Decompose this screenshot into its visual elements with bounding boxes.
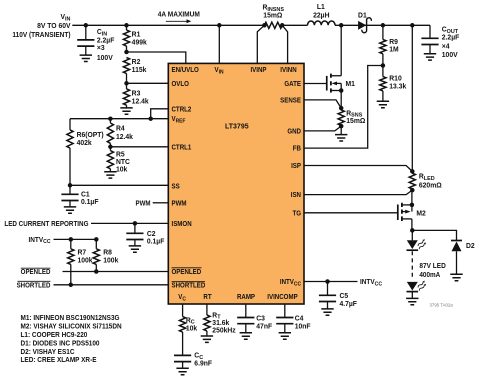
svg-text:OPENLED: OPENLED [21, 269, 51, 276]
svg-text:10k: 10k [186, 325, 197, 332]
inductor L1 [308, 4, 336, 26]
svg-text:OVLO: OVLO [172, 80, 189, 87]
wire SHORTLED [54, 284, 169, 286]
pin label PWM [172, 200, 188, 207]
node ISMON-C2 junction [133, 221, 138, 226]
wire PWM [153, 202, 169, 204]
node CTRL2-VREF junction [148, 116, 153, 121]
svg-text:LED: CREE XLAMP XR-E: LED: CREE XLAMP XR-E [20, 357, 97, 364]
svg-text:D1: D1 [358, 12, 367, 19]
svg-text:15mΩ: 15mΩ [346, 118, 365, 125]
wire ISP [304, 166, 412, 172]
node M2 source-body tie [410, 203, 415, 208]
ground below C1 [64, 207, 76, 213]
svg-text:NTC: NTC [116, 159, 130, 166]
capacitor C5 [319, 282, 357, 309]
label INTVCC right [360, 279, 382, 288]
node INTVCC-R8 [94, 237, 99, 242]
svg-text:M1: INFINEON BSC190N12NS3G: M1: INFINEON BSC190N12NS3G [20, 315, 119, 322]
pin label FB [293, 145, 301, 152]
svg-text:GND: GND [287, 128, 301, 135]
svg-text:TG: TG [292, 210, 301, 217]
IC U1 LT3795 body [168, 63, 304, 304]
pin label GATE [284, 81, 301, 88]
pin label VREF [172, 116, 187, 125]
ground below C2 [129, 246, 141, 252]
svg-text:4A MAXIMUM: 4A MAXIMUM [158, 11, 200, 18]
capacitor CC [174, 353, 212, 369]
node SENSE-RSNS junction [339, 106, 344, 111]
svg-text:L1: COOPER HC9-220: L1: COOPER HC9-220 [20, 332, 87, 339]
ground below RT [201, 336, 213, 342]
node RSNS bottom / GND tap [339, 124, 344, 129]
pin label INTVCC (right) [280, 279, 301, 288]
svg-text:SS: SS [172, 183, 181, 190]
svg-text:R8: R8 [103, 249, 112, 256]
node rail-R1 junction [124, 23, 129, 28]
label RINSNS value [263, 5, 285, 20]
svg-text:ISN: ISN [291, 192, 301, 199]
svg-text:ISP: ISP [291, 163, 301, 170]
capacitor C2 [126, 223, 164, 246]
capacitor C4 (IVINCOMP) [276, 304, 310, 333]
svg-text:C4: C4 [295, 315, 304, 322]
label PWM external [135, 200, 151, 207]
wire M1 source to RSNS [340, 91, 342, 109]
pin label VC (bottom) [178, 294, 186, 303]
svg-text:12.4k: 12.4k [116, 134, 133, 141]
node OPENLED-R8 junction [94, 269, 99, 274]
figure tag 3795 TA02a [429, 302, 453, 307]
wire VOUT to RLED [411, 25, 413, 171]
svg-text:0.1µF: 0.1µF [147, 239, 164, 246]
svg-text:PWM: PWM [172, 200, 188, 207]
svg-text:C5: C5 [340, 293, 349, 300]
pin label TG [292, 210, 301, 217]
svg-text:R2: R2 [132, 59, 141, 66]
svg-text:115k: 115k [132, 67, 147, 74]
svg-text:47nF: 47nF [256, 324, 272, 331]
svg-text:R4: R4 [116, 126, 125, 133]
svg-text:100V: 100V [442, 52, 458, 59]
svg-text:2.2µF: 2.2µF [442, 35, 459, 42]
pin label RAMP [237, 294, 256, 301]
pin label IVINP [250, 67, 267, 74]
svg-text:10k: 10k [116, 166, 127, 173]
ground below C5 [321, 309, 333, 315]
diode D1 (schottky) [358, 12, 371, 33]
svg-text:D2: VISHAY ES1C: D2: VISHAY ES1C [20, 349, 74, 356]
ground below C3 [240, 333, 252, 339]
ground below COUT [424, 54, 436, 60]
capacitor C1 [61, 185, 98, 207]
svg-text:R1: R1 [132, 31, 141, 38]
svg-text:C1: C1 [81, 191, 90, 198]
node RLED top [410, 169, 415, 174]
wire INTVCC right [304, 281, 358, 283]
node INTVCC-R7 [69, 237, 74, 242]
svg-text:R7: R7 [78, 249, 87, 256]
capacitor C3 (RAMP) [237, 304, 272, 333]
svg-text:LED CURRENT REPORTING: LED CURRENT REPORTING [4, 221, 88, 228]
wire ISN [304, 190, 412, 195]
resistor RLED [409, 173, 442, 189]
svg-text:15mΩ: 15mΩ [263, 12, 282, 19]
diode D2 [451, 241, 475, 275]
svg-text:3795 TA02a: 3795 TA02a [429, 302, 453, 307]
resistor RINSNS (input sense) [264, 22, 282, 28]
wire ISMON [91, 222, 168, 224]
resistor R8 [93, 239, 118, 271]
pin label ISMON [172, 220, 192, 227]
resistor R3 [123, 83, 148, 108]
label VIN source [12, 14, 71, 39]
pin label EN/UVLO [172, 67, 199, 74]
svg-text:2.2µF: 2.2µF [97, 37, 114, 44]
label COUT value [442, 27, 459, 60]
svg-text:R5: R5 [116, 152, 125, 159]
svg-text:SHORTLED: SHORTLED [172, 282, 206, 289]
resistor R4 [107, 119, 133, 147]
resistor R2 [123, 58, 146, 84]
node SW (L1-D1-M1 junction) [339, 23, 344, 28]
svg-text:C2: C2 [147, 231, 156, 238]
node VREF-R4 junction [108, 116, 113, 121]
ground below D2 [450, 274, 462, 280]
svg-text:SENSE: SENSE [280, 97, 301, 104]
pin label OPENLED (with overline) [172, 268, 202, 276]
svg-text:×3: ×3 [97, 45, 105, 52]
node R1-R2 junction / EN-UVLO tap [124, 50, 129, 55]
notes component list [20, 315, 121, 365]
pin label RT (bottom) [203, 294, 211, 301]
pin label OVLO [172, 80, 189, 87]
capacitor CIN [77, 25, 94, 55]
svg-text:C3: C3 [256, 315, 265, 322]
svg-text:87V LED: 87V LED [419, 263, 445, 270]
wire CTRL2 link [151, 109, 169, 119]
svg-text:×4: ×4 [442, 43, 450, 50]
ground below CC [176, 368, 188, 374]
svg-text:100k: 100k [103, 258, 118, 265]
wire EN/UVLO [127, 52, 186, 63]
label 4A MAXIMUM with arrow [158, 11, 200, 23]
wire to D2 [412, 230, 456, 240]
svg-text:8V TO 60V: 8V TO 60V [37, 23, 71, 30]
node R2-R3 junction / OVLO tap [124, 81, 129, 86]
wire CTRL1 [110, 146, 168, 148]
node VIN-CIN junction [84, 23, 89, 28]
label INTVCC left [29, 237, 51, 246]
wire SENSE [304, 100, 341, 108]
svg-text:IVINCOMP: IVINCOMP [267, 294, 298, 301]
node rail-VOUT junction (RLED branch) [410, 23, 415, 28]
wire GND pin [304, 126, 341, 131]
svg-text:OPENLED: OPENLED [172, 268, 202, 275]
ground below R3 [120, 108, 132, 114]
svg-text:RAMP: RAMP [237, 294, 256, 301]
svg-text:620mΩ: 620mΩ [419, 182, 442, 189]
svg-text:R6(OPT): R6(OPT) [77, 132, 104, 139]
svg-text:250kHz: 250kHz [212, 327, 236, 334]
node RLED bottom [410, 188, 415, 193]
wire IVINP lead [257, 25, 264, 63]
wire SS net [70, 184, 168, 186]
wire INTVCC left net [54, 238, 97, 240]
svg-text:D2: D2 [466, 243, 475, 250]
LED D-LED2 (bottom of string) [407, 280, 427, 292]
pin label ISP [291, 163, 301, 170]
LED D-LED1 (top of string) [407, 230, 427, 250]
svg-text:SHORTLED: SHORTLED [17, 282, 51, 289]
resistor R1 [123, 25, 147, 52]
label 87V LED 400mA [419, 263, 445, 280]
svg-text:M2: VISHAY SILICONIX Si7115DN: M2: VISHAY SILICONIX Si7115DN [20, 323, 121, 330]
node SHORTLED-R7 junction [69, 283, 74, 288]
ground below CIN [80, 55, 92, 61]
svg-text:GATE: GATE [284, 81, 301, 88]
resistor R9 [380, 25, 399, 65]
node rail-R9 junction [381, 23, 386, 28]
svg-text:ISMON: ISMON [172, 220, 192, 227]
svg-text:PWM: PWM [135, 200, 151, 207]
resistor R5 (NTC) [107, 147, 130, 174]
svg-text:M1: M1 [346, 81, 356, 88]
resistor R10 [380, 66, 407, 102]
pin label IVINCOMP [267, 294, 298, 301]
ground below RSNS [335, 126, 347, 141]
transistor M1 (NMOS) [327, 25, 355, 92]
pin label SS [172, 183, 181, 190]
resistor R6 (OPT) [67, 119, 104, 186]
resistor RC (compensation) [180, 304, 198, 355]
node SS-C1 junction [68, 183, 73, 188]
wire OVLO [127, 82, 169, 84]
svg-text:110V (TRANSIENT): 110V (TRANSIENT) [12, 32, 70, 39]
svg-text:R3: R3 [132, 90, 141, 97]
svg-text:400mA: 400mA [419, 272, 440, 279]
node RINSNS left [262, 23, 267, 28]
ground below R5 [104, 172, 116, 178]
node M1 source [339, 88, 344, 93]
node INTVCC-C5 junction [325, 279, 330, 284]
label LED CURRENT REPORTING [4, 221, 88, 228]
wire FB link [304, 66, 383, 149]
svg-text:100V: 100V [97, 55, 113, 62]
node R4-R5 junction / CTRL1 tap [108, 145, 113, 150]
node R9-R10 junction / FB tap [381, 63, 386, 68]
pin label CTRL1 [172, 144, 192, 151]
transistor M2 (PMOS) [398, 190, 426, 230]
svg-text:D1: DIODES INC PDS5100: D1: DIODES INC PDS5100 [20, 340, 99, 347]
wire dashed LED string [411, 251, 413, 278]
svg-text:402k: 402k [77, 140, 92, 147]
svg-text:12.4k: 12.4k [132, 98, 149, 105]
svg-text:13.3k: 13.3k [389, 83, 406, 90]
wire GATE [304, 83, 327, 85]
node RINSNS right [280, 23, 285, 28]
label OPENLED external (with overline) [21, 268, 51, 276]
node LED anode junction [410, 228, 415, 233]
svg-text:10nF: 10nF [295, 324, 311, 331]
svg-text:31.6k: 31.6k [212, 320, 229, 327]
resistor RT (frequency set) [204, 304, 236, 336]
svg-text:RT: RT [203, 294, 211, 301]
label CIN value [97, 29, 114, 62]
pin label SHORTLED (with overline) [172, 282, 206, 290]
svg-text:0.1µF: 0.1µF [81, 199, 98, 206]
svg-text:L1: L1 [317, 4, 325, 11]
label SHORTLED external (with overline) [17, 281, 51, 289]
pin label IVINN [280, 67, 297, 74]
wire OPENLED [63, 271, 169, 273]
svg-text:100k: 100k [78, 258, 93, 265]
pin label GND [287, 128, 301, 135]
wire VIN pin lead [217, 23, 222, 63]
resistor R7 [68, 239, 93, 284]
svg-text:6.9nF: 6.9nF [194, 361, 212, 368]
svg-text:R10: R10 [389, 76, 402, 83]
ground below R10 [377, 101, 389, 107]
pin label VIN (top) [215, 67, 224, 76]
pin label SENSE [280, 97, 301, 104]
wire VREF net [70, 118, 168, 120]
ground below LED string [406, 292, 418, 305]
svg-text:M2: M2 [416, 210, 426, 217]
capacitor COUT [421, 25, 438, 53]
svg-text:499k: 499k [132, 39, 147, 46]
IC label LT3795 [225, 124, 249, 131]
svg-text:1M: 1M [389, 47, 399, 54]
wire TG [304, 212, 398, 214]
ground below C4 [279, 333, 291, 339]
pin label ISN [291, 192, 301, 199]
pin label CTRL2 [172, 106, 192, 113]
svg-text:FB: FB [293, 145, 301, 152]
svg-text:CTRL1: CTRL1 [172, 144, 192, 151]
wire IVINN lead [282, 25, 287, 63]
svg-text:IVINN: IVINN [280, 67, 297, 74]
svg-text:R9: R9 [389, 39, 398, 46]
svg-text:IVINP: IVINP [250, 67, 267, 74]
svg-text:22µH: 22µH [313, 12, 329, 19]
resistor RSNS [338, 110, 366, 125]
svg-text:4.7µF: 4.7µF [340, 301, 357, 308]
wire VIN top rail [72, 24, 430, 26]
svg-text:CTRL2: CTRL2 [172, 106, 192, 113]
svg-text:EN/UVLO: EN/UVLO [172, 67, 199, 74]
svg-text:LT3795: LT3795 [225, 124, 249, 131]
